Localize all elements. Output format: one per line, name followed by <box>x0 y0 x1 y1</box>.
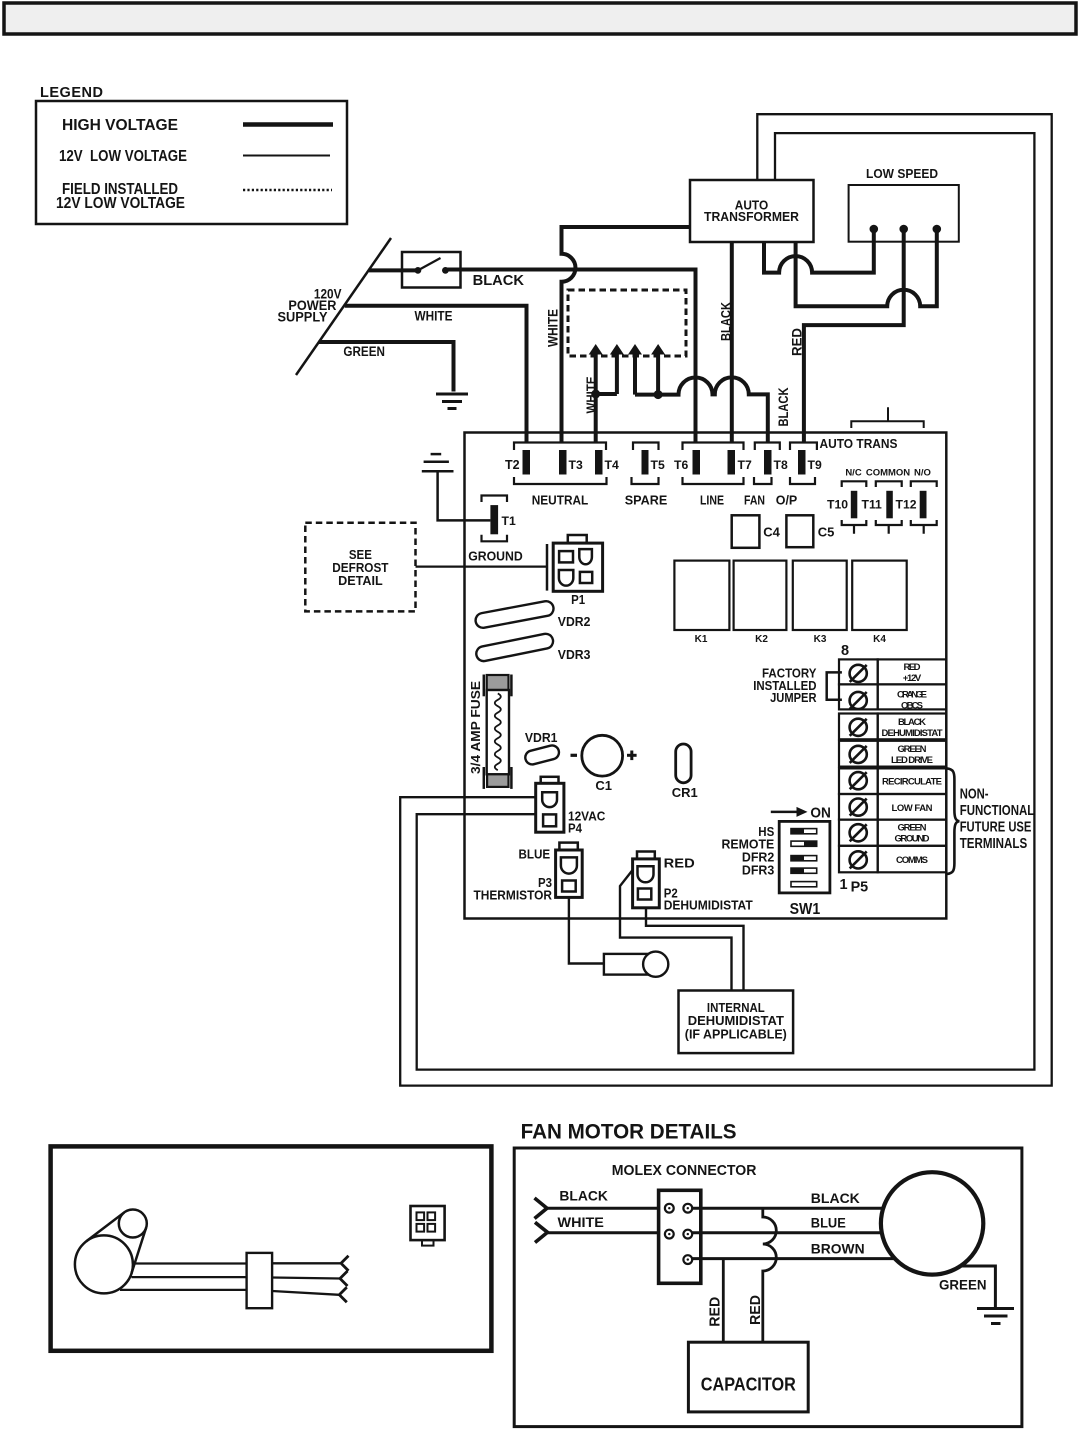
svg-text:12V LOW VOLTAGE: 12V LOW VOLTAGE <box>59 148 187 165</box>
svg-text:FUTURE USE: FUTURE USE <box>960 818 1032 835</box>
wire BLACK arrows 3-4 to T8 (hops over T6,T7 wires) <box>635 377 768 442</box>
svg-text:C5: C5 <box>818 525 835 540</box>
wire red 2 (black tap to capacitor, hops blue+brown) <box>763 1208 777 1343</box>
wire WHITE from supply to T2 <box>345 306 527 442</box>
terminal T12 <box>920 491 927 519</box>
ground symbol left of board (inverted) <box>422 454 454 471</box>
svg-text:FAN: FAN <box>744 494 765 508</box>
svg-text:VDR3: VDR3 <box>558 647 591 662</box>
input wire black <box>546 1207 659 1210</box>
svg-text:GROUND: GROUND <box>895 834 930 845</box>
relay K4 <box>852 561 907 630</box>
varistor VDR2 <box>474 600 554 629</box>
svg-text:VDR1: VDR1 <box>525 730 558 745</box>
wire BLACK from supply to switch <box>369 268 418 272</box>
svg-text:N/O: N/O <box>914 468 931 479</box>
sensor wires to grommet <box>133 1262 247 1264</box>
wire defrost box to P1 <box>416 565 548 567</box>
svg-text:(IF APPLICABLE): (IF APPLICABLE) <box>685 1027 787 1042</box>
svg-text:MOLEX CONNECTOR: MOLEX CONNECTOR <box>612 1163 757 1179</box>
svg-text:LOW SPEED: LOW SPEED <box>866 167 938 181</box>
fan motor circle <box>881 1172 983 1274</box>
svg-text:P1: P1 <box>571 593 585 607</box>
switch DFR2 <box>791 856 817 861</box>
junction dot arrow4 <box>654 390 663 399</box>
svg-text:WHITE: WHITE <box>558 1214 604 1230</box>
internal dehumidistat box <box>679 991 794 1054</box>
svg-text:RECIRCULATE: RECIRCULATE <box>882 777 942 788</box>
bracket NEUTRAL <box>514 477 607 484</box>
control board outline <box>465 433 947 919</box>
svg-text:DEFROST: DEFROST <box>332 561 389 575</box>
svg-text:NON-: NON- <box>960 785 989 802</box>
terminal T10 <box>851 491 858 519</box>
svg-text:GREEN: GREEN <box>898 744 927 755</box>
svg-text:WHITE: WHITE <box>415 309 453 324</box>
svg-text:K3: K3 <box>814 634 827 645</box>
wire brown molex to motor <box>692 1257 896 1260</box>
svg-text:GREEN: GREEN <box>939 1277 987 1293</box>
bracket over T9 <box>790 443 817 451</box>
bracket O/P <box>790 477 815 484</box>
switch HS <box>791 829 817 834</box>
fan motor details box <box>514 1148 1022 1427</box>
ground (supply earth) <box>436 394 468 409</box>
sensor tangent lines <box>86 1212 124 1241</box>
legend 12V low voltage line sample <box>243 155 330 157</box>
bracket under T1 <box>482 535 508 542</box>
switch S1 box <box>402 252 461 288</box>
svg-text:3/4 AMP FUSE: 3/4 AMP FUSE <box>468 681 483 774</box>
svg-text:T1: T1 <box>502 514 516 528</box>
bracket over T10 <box>842 481 867 487</box>
svg-text:N/C: N/C <box>845 468 862 479</box>
wire end chevrons <box>341 1256 349 1271</box>
svg-text:T11: T11 <box>862 498 883 512</box>
svg-text:CAPACITOR: CAPACITOR <box>701 1375 796 1395</box>
svg-text:BROWN: BROWN <box>811 1241 865 1257</box>
jumper wire rows 1-2 <box>827 672 842 699</box>
ground (fan motor) <box>977 1309 1014 1324</box>
svg-text:AUTO TRANS: AUTO TRANS <box>820 437 898 451</box>
svg-text:T12: T12 <box>896 498 917 512</box>
svg-text:T8: T8 <box>774 458 788 472</box>
svg-text:RED: RED <box>708 1297 724 1327</box>
supply diagonal line <box>296 238 391 375</box>
svg-text:DEHUMIDISTAT: DEHUMIDISTAT <box>664 899 753 913</box>
bracket under T11 <box>876 520 902 534</box>
auto trans bracket symbol <box>851 407 923 428</box>
svg-text:TERMINALS: TERMINALS <box>960 835 1027 852</box>
svg-text:RED: RED <box>748 1295 764 1325</box>
wire RED low speed dot2 to T9 <box>804 229 904 442</box>
svg-text:THERMISTOR: THERMISTOR <box>474 889 553 903</box>
svg-text:COMMS: COMMS <box>896 855 928 866</box>
svg-text:K1: K1 <box>695 634 708 645</box>
svg-text:T10: T10 <box>827 498 848 512</box>
diode CR1 <box>676 744 691 783</box>
bracket over T11 <box>876 481 902 487</box>
see defrost detail dashed box <box>305 523 415 612</box>
svg-text:LEGEND: LEGEND <box>40 85 103 101</box>
svg-text:BLACK: BLACK <box>811 1190 860 1206</box>
svg-text:P5: P5 <box>851 880 869 896</box>
terminal T7 <box>728 450 736 475</box>
svg-text:BLACK: BLACK <box>559 1188 608 1204</box>
svg-text:GREEN: GREEN <box>898 823 927 834</box>
svg-text:CR1: CR1 <box>672 785 698 800</box>
bracket over T2-T4 <box>514 443 606 451</box>
grommet <box>247 1253 273 1308</box>
switch DFR3 <box>791 868 817 873</box>
terminal T4 <box>595 450 603 475</box>
junction dot T4 <box>591 390 600 399</box>
relay K2 <box>734 561 787 630</box>
small connector icon <box>411 1206 445 1240</box>
wire black molex to motor <box>692 1207 885 1210</box>
connector P1 <box>568 535 587 543</box>
svg-text:T4: T4 <box>605 458 619 472</box>
arrow 2 <box>610 344 624 355</box>
legend box <box>36 101 347 224</box>
wires out of grommet <box>272 1262 341 1264</box>
svg-text:BLACK: BLACK <box>898 717 926 728</box>
svg-text:WHITE: WHITE <box>584 376 599 413</box>
svg-text:RED: RED <box>904 662 921 673</box>
svg-text:LINE: LINE <box>700 494 724 508</box>
wire P2 bottom to internal dehumidistat <box>646 908 744 991</box>
svg-text:RED: RED <box>664 857 695 871</box>
svg-text:OBCS: OBCS <box>901 701 923 712</box>
connector P2 dehumidistat <box>637 852 655 859</box>
sensor bulb large circle <box>75 1235 133 1293</box>
svg-text:BLACK: BLACK <box>473 272 525 289</box>
wire BLACK from switch to T6 <box>445 270 695 443</box>
svg-text:DFR3: DFR3 <box>742 863 774 878</box>
header bar <box>4 3 1076 34</box>
capacitor C4 <box>732 515 760 548</box>
input chevron black <box>535 1198 548 1219</box>
bracket under T10 <box>842 520 867 534</box>
switch 5 (blank) <box>791 882 817 887</box>
svg-text:WHITE: WHITE <box>546 309 561 347</box>
capacitor C5 <box>786 515 813 547</box>
svg-text:HIGH VOLTAGE: HIGH VOLTAGE <box>62 117 178 134</box>
switch lever <box>418 258 441 270</box>
sensor small circle <box>119 1210 147 1238</box>
auto transformer box <box>690 180 814 242</box>
svg-text:FAN MOTOR DETAILS: FAN MOTOR DETAILS <box>521 1121 737 1144</box>
wire green motor to ground <box>959 1266 996 1307</box>
bracket FAN <box>754 477 772 484</box>
wire blue molex to motor <box>692 1231 883 1234</box>
wire transformer terminal to low speed dot1 (with hop) <box>764 229 874 273</box>
svg-text:O/P: O/P <box>776 494 798 508</box>
arrow 4 <box>651 344 665 355</box>
P5 screw terminals (8) <box>850 665 867 869</box>
bracket SPARE <box>632 477 659 484</box>
bracket under T12 <box>911 520 937 534</box>
svg-text:SEE: SEE <box>349 548 372 562</box>
molex connector body <box>659 1190 701 1283</box>
svg-text:8: 8 <box>841 643 849 659</box>
arrow 1 <box>589 344 603 355</box>
svg-text:ON: ON <box>810 805 831 822</box>
svg-text:LED DRIVE: LED DRIVE <box>891 755 933 766</box>
bracket over T8 <box>755 443 780 451</box>
svg-text:BLACK: BLACK <box>719 302 734 341</box>
switch REMOTE <box>791 841 817 846</box>
svg-text:C1: C1 <box>595 778 612 793</box>
terminal T3 <box>559 450 567 475</box>
wire red 1 (brown tap to capacitor) <box>722 1259 725 1343</box>
wire P2 left pin to internal dehumidistat <box>620 870 732 991</box>
wire WHITE T4 to arrows 1-2 <box>596 394 617 442</box>
wire GREEN from supply to ground <box>319 342 454 392</box>
terminal strip P5 <box>839 659 946 872</box>
wire BLACK transformer to T7 <box>730 242 734 442</box>
terminal T5 <box>642 450 649 475</box>
svg-text:T3: T3 <box>569 458 583 472</box>
varistor VDR3 <box>475 632 554 662</box>
12V loop wire inner <box>417 133 1035 1070</box>
relay K3 <box>793 561 847 630</box>
svg-text:+12V: +12V <box>903 673 922 684</box>
svg-text:SW1: SW1 <box>790 901 821 918</box>
svg-text:SPARE: SPARE <box>625 494 668 508</box>
svg-text:DEHUMIDISTAT: DEHUMIDISTAT <box>882 728 943 739</box>
legend dotted line sample <box>243 189 332 192</box>
wire P3 to thermistor bulb <box>569 897 604 963</box>
svg-text:C4: C4 <box>763 525 780 540</box>
svg-text:P4: P4 <box>568 822 582 836</box>
svg-text:SUPPLY: SUPPLY <box>278 310 328 325</box>
svg-text:RED: RED <box>790 328 805 356</box>
connector P3 thermistor <box>559 843 577 850</box>
svg-text:T7: T7 <box>738 458 752 472</box>
thermistor bulb <box>604 954 650 975</box>
low speed box <box>849 185 959 242</box>
input wire white <box>547 1231 659 1234</box>
terminal T11 <box>886 491 893 519</box>
bracket over T5 <box>633 443 659 451</box>
svg-text:T6: T6 <box>674 458 688 472</box>
capacitor C1 <box>571 754 578 757</box>
svg-text:K2: K2 <box>755 634 768 645</box>
bracket over T12 <box>911 481 937 487</box>
bracket over T1 <box>482 496 508 503</box>
input chevron white <box>535 1222 548 1242</box>
connector P4 12VAC <box>541 777 559 784</box>
bracket LINE <box>683 477 744 484</box>
capacitor box <box>688 1342 808 1412</box>
svg-text:GROUND: GROUND <box>468 550 523 564</box>
svg-text:FUNCTIONAL: FUNCTIONAL <box>960 802 1035 819</box>
svg-text:TRANSFORMER: TRANSFORMER <box>704 210 799 224</box>
ON arrow <box>771 811 797 814</box>
svg-text:JUMPER: JUMPER <box>770 690 817 705</box>
terminal T2 <box>523 450 531 475</box>
relay K1 <box>674 561 729 630</box>
switch contacts <box>415 267 422 274</box>
svg-text:12V LOW VOLTAGE: 12V LOW VOLTAGE <box>56 195 185 212</box>
wire WHITE from auto transformer to T3 (with hop) <box>562 227 691 442</box>
wire ground to T1 <box>438 471 491 520</box>
svg-text:ORANGE: ORANGE <box>897 690 927 701</box>
svg-text:BLACK: BLACK <box>776 387 791 426</box>
wire transformer terminal to low speed dot3 (with hop) <box>796 229 937 306</box>
terminal T6 <box>693 450 701 475</box>
low speed terminal dots <box>870 225 879 234</box>
arrow 3 <box>628 344 642 355</box>
terminal T8 <box>764 450 772 475</box>
field installed dashed box <box>568 290 686 356</box>
svg-text:GREEN: GREEN <box>343 344 385 359</box>
svg-text:1: 1 <box>840 877 848 893</box>
terminal T1 <box>490 505 498 534</box>
svg-text:T5: T5 <box>651 458 665 472</box>
svg-text:COMMON: COMMON <box>866 468 910 479</box>
svg-text:T9: T9 <box>808 458 822 472</box>
svg-text:BLUE: BLUE <box>519 848 551 862</box>
legend high voltage line sample <box>243 122 333 127</box>
svg-text:T2: T2 <box>505 458 520 472</box>
dip switch SW1 <box>779 821 830 893</box>
molex pins <box>665 1204 692 1264</box>
svg-text:VDR2: VDR2 <box>558 614 591 629</box>
bracket over T6-T7 <box>683 443 744 451</box>
defrost sensor detail box <box>51 1146 492 1350</box>
svg-text:DETAIL: DETAIL <box>338 574 383 588</box>
terminal T9 <box>798 450 806 475</box>
P1 latch line <box>546 544 549 591</box>
svg-text:BLUE: BLUE <box>811 1215 846 1231</box>
brace non-functional terminals <box>947 768 960 874</box>
svg-text:LOW FAN: LOW FAN <box>892 803 933 814</box>
P5 row labels <box>882 662 943 866</box>
svg-text:K4: K4 <box>873 634 886 645</box>
12V loop wire outer (transformer to P4 around page) <box>400 114 1051 1085</box>
svg-text:NEUTRAL: NEUTRAL <box>532 494 589 508</box>
